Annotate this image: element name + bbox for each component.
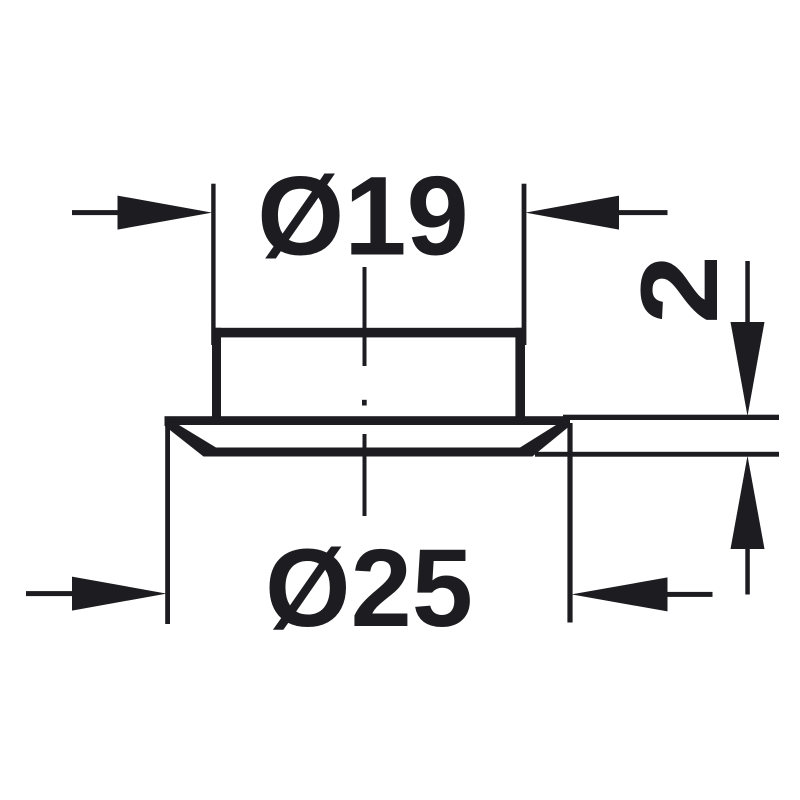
centerline dot <box>362 400 367 406</box>
centerline lower dash <box>363 434 367 516</box>
svg-text:Ø19: Ø19 <box>257 154 469 279</box>
cap body right wall <box>515 328 525 425</box>
centerline upper dash <box>363 267 367 366</box>
cap body left wall <box>212 328 221 425</box>
extension line bottom of dim 2 <box>535 452 779 457</box>
dim 25 left arrowhead <box>72 577 167 611</box>
dim 19 right arrow tail <box>619 210 668 215</box>
dim 25 right arrow tail <box>666 592 713 597</box>
flange top surface line <box>165 416 571 425</box>
cap body top edge <box>212 328 525 338</box>
dim 19 left arrowhead <box>118 196 213 230</box>
svg-text:2: 2 <box>618 255 741 324</box>
flange left conical edge <box>165 416 217 456</box>
svg-text:Ø25: Ø25 <box>265 527 473 650</box>
dim 2 upper arrow tail <box>745 261 750 325</box>
extension line right of dim 25 <box>567 423 572 623</box>
dim 25 left arrow tail <box>26 591 74 596</box>
dim 25 right arrowhead <box>572 577 668 611</box>
dim 2 lower arrow tail <box>745 547 750 595</box>
extension line left of dim 25 <box>165 423 170 624</box>
dim 19 left arrow tail <box>72 210 120 215</box>
extension line left of dim 19 <box>211 184 215 345</box>
dim 2 lower arrowhead <box>731 456 765 549</box>
dim 19 right arrowhead <box>526 196 620 230</box>
extension line top of dim 2 <box>563 415 779 420</box>
dim 2 upper arrowhead <box>731 322 765 416</box>
extension line right of dim 19 <box>522 184 527 345</box>
flange bottom edge <box>204 448 533 457</box>
flange right conical edge <box>520 416 570 456</box>
